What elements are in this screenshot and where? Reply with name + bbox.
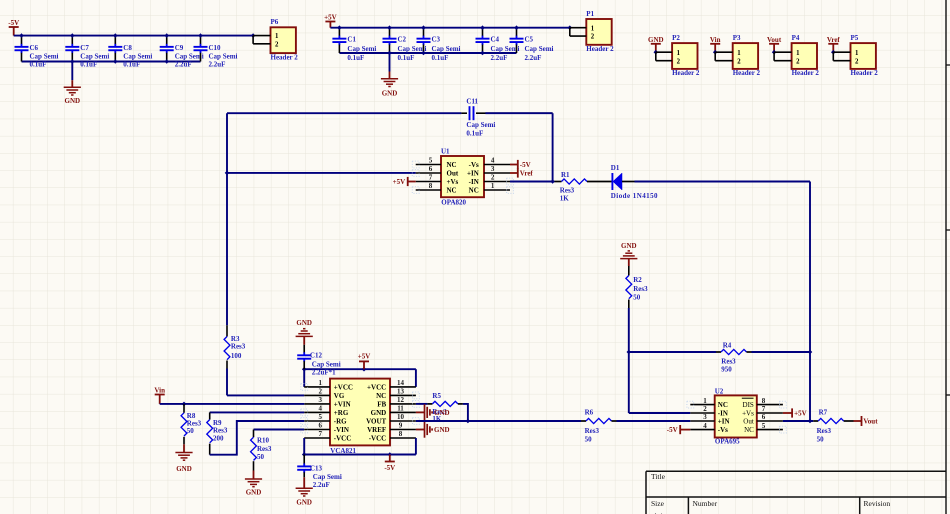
svg-text:Cap Semi: Cap Semi [525, 45, 554, 53]
VCA821 pin 1 (+VCC) [304, 379, 353, 391]
svg-text:NC: NC [447, 186, 457, 194]
wire +RG to R9 [210, 411, 305, 413]
svg-text:C13: C13 [310, 464, 323, 472]
svg-text:-RG: -RG [334, 417, 347, 425]
wire R1 to D1 [587, 181, 612, 183]
svg-text:1: 1 [703, 397, 707, 405]
svg-text:-5V: -5V [520, 161, 531, 169]
P5 pin 2 [833, 60, 850, 62]
wire VOUT to R6 [416, 420, 581, 422]
power port -5V at U1 pin4 [510, 160, 518, 169]
svg-text:12: 12 [397, 396, 405, 404]
svg-text:-Vs: -Vs [469, 161, 479, 169]
U1 pin 4 (-Vs) [469, 157, 510, 169]
svg-text:8: 8 [399, 430, 403, 438]
svg-text:GND: GND [371, 409, 387, 417]
junction C12 node [302, 367, 307, 372]
svg-text:NC: NC [718, 401, 728, 409]
power port -5V (top-left rail) [9, 27, 19, 36]
capacitor C2 [383, 28, 397, 53]
svg-text:Cap Semi: Cap Semi [123, 53, 152, 61]
ground GND below C13 [303, 477, 305, 488]
svg-text:1: 1 [275, 33, 279, 40]
svg-text:P6: P6 [271, 18, 279, 26]
wire +5V rail bottom [339, 52, 516, 54]
svg-text:C11: C11 [466, 98, 478, 106]
svg-text:10: 10 [397, 413, 405, 421]
U1 pin 7 (+Vs) [416, 174, 459, 186]
U1 pin 3 (+IN) [467, 165, 510, 177]
svg-text:C7: C7 [80, 44, 89, 52]
VCA821 pin 3 (+VIN) [304, 396, 350, 408]
svg-text:Res3: Res3 [817, 427, 832, 435]
VCA821 pin 4 (+RG) [304, 405, 349, 417]
svg-text:Cap Semi: Cap Semi [347, 45, 376, 53]
svg-text:R1: R1 [561, 171, 570, 179]
power port Vout (output) [854, 416, 862, 426]
resistor R1 [562, 179, 587, 184]
junction at P4 pin1 [772, 50, 777, 55]
svg-text:-5V: -5V [8, 19, 19, 27]
svg-text:GND: GND [296, 499, 312, 507]
svg-text:GND: GND [65, 97, 81, 105]
wire -VIN to R10 [254, 429, 305, 431]
junction R4 left [627, 350, 632, 355]
svg-text:7: 7 [319, 430, 323, 438]
svg-text:Res3: Res3 [213, 427, 228, 435]
junction -5V node [388, 452, 393, 457]
ground GND above C12 [296, 329, 313, 337]
svg-text:0.1uF: 0.1uF [432, 54, 449, 62]
P1 pin 1 [570, 27, 587, 29]
power port GND at P2 [651, 44, 661, 52]
junction feedback/Out [808, 419, 813, 424]
wire right vertical feedback [809, 182, 811, 422]
svg-text:Vout: Vout [863, 417, 878, 425]
wire P1 pin1-pin2 link [569, 28, 571, 36]
U2 pin 1 (NC) [690, 397, 728, 409]
resistor R3 [226, 325, 228, 336]
wire VCA821 +VCC top [304, 368, 416, 370]
svg-text:Cap Semi: Cap Semi [491, 45, 520, 53]
svg-text:GND: GND [621, 242, 637, 250]
svg-text:R5: R5 [432, 392, 441, 400]
svg-text:2.2uF: 2.2uF [209, 61, 226, 69]
VCA821 pin 14 (+VCC) [367, 379, 416, 391]
svg-text:2: 2 [491, 174, 495, 182]
svg-text:1: 1 [491, 182, 495, 190]
svg-text:6: 6 [319, 422, 323, 430]
wire R2 node to U2 -IN [629, 412, 691, 414]
svg-text:Cap Semi: Cap Semi [398, 45, 427, 53]
svg-text:Cap Semi: Cap Semi [466, 121, 495, 129]
junction U1 out / C11 [225, 171, 230, 176]
svg-text:Diode 1N4150: Diode 1N4150 [611, 192, 658, 200]
svg-text:C3: C3 [432, 35, 441, 43]
svg-text:2: 2 [319, 388, 323, 396]
P4 pin 1 [774, 51, 792, 53]
wire R6 to U2 +IN [612, 420, 617, 422]
wire +5V rail top [330, 27, 569, 29]
junction at P2 pin1 [654, 50, 659, 55]
resistor R9 [209, 412, 211, 419]
U2 pin 3 (+IN) [690, 413, 729, 425]
U2 pin 5 (NC) [744, 422, 783, 434]
svg-text:6: 6 [429, 165, 433, 173]
svg-text:Title: Title [651, 472, 666, 481]
resistor R7 [818, 418, 843, 423]
svg-text:Res3: Res3 [585, 427, 600, 435]
capacitor C10 [194, 36, 208, 62]
svg-text:Vin: Vin [710, 36, 721, 44]
U1 pin 5 (NC) [416, 157, 457, 169]
capacitor C11 [461, 106, 552, 120]
op-amp U2 body [715, 395, 757, 437]
svg-text:GND: GND [246, 489, 262, 497]
junction at P3 pin1 [713, 50, 718, 55]
svg-text:Cap Semi: Cap Semi [432, 45, 461, 53]
svg-text:+VCC: +VCC [367, 383, 386, 391]
P6 pin 2 [253, 43, 270, 45]
wire P4 pin1-pin2 link [773, 52, 775, 61]
diode D1 [612, 173, 637, 190]
P3 pin 1 [715, 51, 733, 53]
capacitor C5 [510, 28, 524, 53]
VCA821 pin 10 (VOUT) [366, 413, 416, 425]
svg-text:+5V: +5V [794, 409, 807, 417]
svg-text:14: 14 [397, 379, 405, 387]
svg-text:GND: GND [434, 409, 450, 417]
svg-text:-5V: -5V [384, 464, 395, 472]
capacitor C8 [108, 36, 122, 62]
P6 pin 1 [253, 35, 270, 37]
svg-text:Size: Size [651, 499, 665, 508]
svg-text:Header 2: Header 2 [733, 69, 761, 77]
svg-text:0.1uF: 0.1uF [466, 130, 483, 138]
connector P6 body [271, 27, 296, 53]
VCA821 pin 13 (NC) [376, 388, 416, 400]
capacitor C9 [160, 36, 174, 62]
svg-text:P1: P1 [586, 10, 594, 18]
capacitor C3 [417, 28, 431, 53]
svg-text:-VCC: -VCC [369, 434, 387, 442]
junctions -5V rail top [19, 33, 255, 38]
wire -5V rail top [14, 35, 253, 37]
svg-text:Res3: Res3 [257, 445, 272, 453]
svg-text:2: 2 [677, 58, 681, 65]
capacitor C6 [15, 36, 29, 62]
svg-text:2.2uF*1: 2.2uF*1 [312, 369, 336, 377]
wire D1 to right vertical [635, 181, 811, 183]
svg-text:Cap Semi: Cap Semi [30, 53, 59, 61]
resistor R5 [432, 401, 458, 406]
VCA821 pin 12 (FB) [377, 396, 416, 408]
power port -5V below VCA821 [385, 455, 395, 462]
wire -VCC bottom rail [303, 438, 305, 455]
svg-text:1: 1 [855, 50, 859, 57]
op-amp U1 body [441, 156, 484, 197]
VCA821 pin 9 (VREF) [367, 422, 416, 434]
svg-text:Header 2: Header 2 [586, 45, 614, 53]
svg-text:R7: R7 [819, 409, 828, 417]
junction R5/VOUT [466, 419, 471, 424]
svg-text:1K: 1K [560, 194, 570, 202]
svg-text:8: 8 [429, 182, 433, 190]
svg-text:C10: C10 [209, 44, 222, 52]
VCA821 pin 11 (GND) [371, 405, 416, 417]
svg-text:Out: Out [447, 169, 459, 177]
svg-text:Out: Out [743, 417, 754, 425]
svg-text:2: 2 [703, 405, 707, 413]
wire GND stub from +5V rail [389, 53, 391, 72]
svg-text:4: 4 [491, 157, 495, 165]
svg-text:2: 2 [737, 58, 741, 65]
P2 pin 1 [656, 51, 672, 53]
svg-text:950: 950 [721, 366, 732, 374]
svg-text:+VCC: +VCC [334, 383, 353, 391]
capacitor C12 [297, 345, 311, 369]
svg-text:2.2uF: 2.2uF [491, 54, 508, 62]
wire P3 pin1-pin2 link [714, 52, 716, 61]
svg-text:1: 1 [796, 50, 800, 57]
connector P5 body [851, 43, 876, 69]
svg-text:P5: P5 [851, 34, 859, 42]
wire U1 pin2 to R1 [510, 181, 553, 183]
power port +5V (top rail) [325, 22, 335, 28]
svg-text:4: 4 [703, 422, 707, 430]
endpoint markers U1 [412, 161, 513, 193]
VCA821 pin 6 (-VIN) [304, 422, 349, 434]
ground GND above R2 [620, 251, 637, 259]
svg-text:+VIN: +VIN [334, 400, 351, 408]
svg-text:GND: GND [434, 426, 450, 434]
title block [646, 471, 946, 514]
svg-text:5: 5 [429, 157, 433, 165]
svg-text:3: 3 [703, 413, 707, 421]
svg-text:2.2uF: 2.2uF [525, 54, 542, 62]
svg-text:GND: GND [648, 36, 664, 44]
svg-text:Number: Number [693, 499, 718, 508]
U1 pin 1 (NC) [469, 182, 510, 194]
svg-text:1: 1 [591, 25, 595, 32]
svg-text:GND: GND [296, 319, 312, 327]
resistor R4 [721, 349, 746, 354]
resistor R10 [253, 430, 255, 438]
svg-text:Cap Semi: Cap Semi [209, 53, 238, 61]
power port Vout at P4 [769, 44, 779, 52]
junction R4 right [808, 350, 813, 355]
junction C13 node [302, 452, 307, 457]
wire R4 right segment [747, 351, 752, 353]
svg-text:R10: R10 [257, 437, 270, 445]
svg-text:6: 6 [762, 413, 766, 421]
svg-text:1: 1 [737, 50, 741, 57]
svg-text:+5V: +5V [324, 14, 337, 22]
U2 pin 8 (DIS) [742, 397, 783, 409]
P2 pin 2 [656, 60, 672, 62]
resistor R2 [628, 266, 630, 276]
svg-text:FB: FB [377, 400, 386, 408]
svg-text:+IN: +IN [718, 417, 730, 425]
wire U1 output to left vertical [226, 113, 228, 325]
wire -5V rail bottom [22, 61, 201, 63]
junctions +5V rail top [337, 25, 572, 30]
power port GND at VCA821 pin9 [416, 421, 432, 437]
connector P3 body [733, 43, 758, 69]
wire R5 to VOUT [458, 403, 463, 405]
svg-text:Header 2: Header 2 [851, 69, 879, 77]
svg-text:Cap Semi: Cap Semi [175, 53, 204, 61]
svg-text:OPA695: OPA695 [715, 437, 740, 445]
svg-text:-VCC: -VCC [334, 434, 352, 442]
P1 pin 2 [570, 35, 587, 37]
svg-text:0.1uF: 0.1uF [123, 61, 140, 69]
svg-text:C4: C4 [491, 35, 500, 43]
ground GND (top-left rail) [71, 80, 73, 87]
power port GND at VCA821 pin11 [416, 404, 432, 420]
svg-text:C5: C5 [525, 35, 534, 43]
svg-text:2: 2 [591, 34, 595, 41]
svg-text:13: 13 [397, 388, 405, 396]
VCA821 pin 8 (-VCC) [369, 430, 416, 442]
junction +5V node [362, 367, 367, 372]
ground GND (top rail) [389, 72, 391, 79]
wire R9 to -RG loop [210, 421, 305, 455]
wire R4 left segment [629, 351, 716, 353]
svg-text:U2: U2 [715, 387, 724, 395]
svg-text:Vin: Vin [154, 387, 165, 395]
svg-text:2.2uF: 2.2uF [175, 61, 192, 69]
svg-text:+RG: +RG [334, 409, 349, 417]
svg-text:Vout: Vout [767, 36, 782, 44]
power port Vref at U1 pin3 [510, 168, 518, 177]
wire U2 Out to R7 [783, 420, 813, 422]
svg-text:0.1uF: 0.1uF [398, 54, 415, 62]
svg-text:VREF: VREF [367, 426, 386, 434]
svg-text:-VIN: -VIN [334, 426, 349, 434]
svg-text:8: 8 [762, 397, 766, 405]
svg-text:Res3: Res3 [721, 358, 736, 366]
connector P2 body [672, 43, 697, 69]
junction R8 tap [182, 402, 187, 407]
svg-text:+IN: +IN [467, 169, 479, 177]
svg-text:Header 2: Header 2 [271, 53, 299, 61]
svg-text:3: 3 [319, 396, 323, 404]
svg-text:NC: NC [376, 392, 386, 400]
svg-text:+5V: +5V [358, 353, 371, 361]
svg-text:2.2uF: 2.2uF [313, 481, 330, 489]
svg-text:Header 2: Header 2 [672, 69, 700, 77]
svg-text:C9: C9 [175, 44, 184, 52]
svg-text:50: 50 [585, 435, 593, 443]
svg-text:5: 5 [319, 413, 323, 421]
svg-text:1: 1 [319, 379, 323, 387]
title block labels [651, 472, 890, 514]
junction C11/R1 node [550, 179, 555, 184]
svg-text:200: 200 [213, 435, 224, 443]
U2 pin 6 (Out) [743, 413, 783, 425]
svg-text:P3: P3 [733, 34, 741, 42]
svg-text:R6: R6 [585, 409, 594, 417]
VCA821 pin 5 (-RG) [304, 413, 347, 425]
svg-text:-IN: -IN [469, 178, 479, 186]
wire R3 to VCA821 VG pin [226, 369, 228, 396]
resistor R6 [586, 418, 611, 423]
svg-text:Res3: Res3 [231, 343, 246, 351]
svg-text:50: 50 [633, 293, 641, 301]
svg-text:9: 9 [399, 422, 403, 430]
P4 pin 2 [774, 60, 792, 62]
svg-text:+Vs: +Vs [447, 178, 459, 186]
VCA821 pin 2 (VG) [304, 388, 345, 400]
wire R2 to R4 node [628, 308, 630, 413]
U2 pin 7 (+Vs) [742, 405, 783, 417]
junctions -5V rail bottom [70, 59, 169, 64]
sheet border right edge [946, 0, 950, 514]
power port -5V at U2 pin4 [680, 425, 690, 434]
svg-text:3: 3 [491, 165, 495, 173]
svg-text:50: 50 [187, 427, 195, 435]
capacitor C7 [65, 36, 79, 62]
ground GND below R8 [183, 444, 185, 452]
svg-text:Vref: Vref [827, 36, 841, 44]
endpoint markers U2 [687, 401, 786, 433]
svg-text:7: 7 [429, 174, 433, 182]
svg-text:1: 1 [677, 50, 681, 57]
svg-text:C2: C2 [398, 35, 407, 43]
wire C11 left [227, 112, 461, 114]
power port Vin [155, 395, 165, 404]
svg-text:R4: R4 [723, 342, 732, 350]
svg-text:Revision: Revision [864, 499, 891, 508]
svg-text:-IN: -IN [718, 409, 728, 417]
svg-text:2: 2 [796, 58, 800, 65]
svg-text:Res3: Res3 [633, 285, 648, 293]
svg-text:0.1uF: 0.1uF [347, 54, 364, 62]
wire P2 pin1-pin2 link [655, 52, 657, 61]
svg-text:50: 50 [817, 435, 825, 443]
connector P4 body [792, 43, 817, 69]
svg-text:Cap Semi: Cap Semi [312, 360, 341, 368]
U1 pin 2 (-IN) [469, 174, 510, 186]
ground GND below R10 [253, 471, 255, 480]
svg-text:0.1uF: 0.1uF [80, 61, 97, 69]
wire FB to R5 [416, 403, 428, 405]
wire P5 pin1-pin2 link [832, 52, 834, 61]
svg-text:2: 2 [855, 58, 859, 65]
svg-text:C12: C12 [310, 352, 323, 360]
U2 pin 4 (-Vs) [690, 422, 728, 434]
U1 pin 6 (Out) [416, 165, 459, 177]
U1 pin 8 (NC) [416, 182, 457, 194]
junction at P5 pin1 [831, 50, 836, 55]
svg-text:2: 2 [275, 41, 279, 48]
svg-text:-Vs: -Vs [718, 426, 728, 434]
svg-text:C1: C1 [347, 35, 356, 43]
svg-text:GND: GND [176, 465, 192, 473]
VCA821 pin 7 (-VCC) [304, 430, 351, 442]
svg-text:-5V: -5V [667, 426, 678, 434]
svg-text:P4: P4 [792, 34, 800, 42]
svg-text:C6: C6 [30, 44, 39, 52]
svg-text:Vref: Vref [520, 169, 534, 177]
wire C11 right to feedback node [485, 112, 552, 114]
svg-text:+5V: +5V [393, 178, 406, 186]
wire R7 to Vout port [844, 420, 854, 422]
power port Vref at P5 [828, 44, 838, 52]
junctions +5V rail bottom [387, 51, 485, 56]
svg-text:100: 100 [231, 352, 242, 360]
